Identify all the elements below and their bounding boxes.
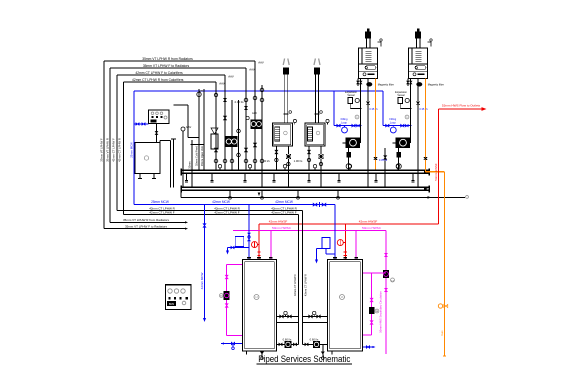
svg-text:35mm VT LPHW F to Radiators: 35mm VT LPHW F to Radiators (143, 64, 190, 68)
svg-text:35mm Open Vent: 35mm Open Vent (200, 146, 204, 166)
svg-text:50mm HWSC: 50mm HWSC (272, 226, 292, 230)
svg-text:AAV: AAV (228, 74, 234, 78)
svg-text:Loop: Loop (341, 120, 347, 124)
svg-text:42mm MCW: 42mm MCW (212, 200, 230, 204)
svg-text:0.35 l/s: 0.35 l/s (419, 107, 428, 111)
svg-text:25mm MCW: 25mm MCW (151, 200, 169, 204)
svg-text:42mm CT LPHW F: 42mm CT LPHW F (214, 211, 239, 215)
svg-text:35mm: 35mm (188, 161, 192, 168)
svg-text:42mm CT LPHW F to Calorifiers: 42mm CT LPHW F to Calorifiers (135, 71, 183, 75)
svg-text:AAV: AAV (252, 111, 257, 115)
svg-text:1.00 l/s: 1.00 l/s (294, 159, 303, 163)
svg-text:42mm CT LPHW F: 42mm CT LPHW F (293, 274, 297, 296)
svg-text:25mm MCW: 25mm MCW (130, 142, 134, 158)
svg-text:0.60 l/s: 0.60 l/s (283, 338, 292, 342)
svg-text:AAV: AAV (219, 81, 225, 85)
svg-text:42mm CT LPHW R from Calorifier: 42mm CT LPHW R from Calorifiers (132, 78, 184, 82)
svg-text:AAV: AAV (249, 67, 255, 71)
svg-text:Loop: Loop (390, 120, 396, 124)
svg-text:Vessel: Vessel (347, 94, 355, 97)
svg-text:35mm VT LPHW R from Radiators: 35mm VT LPHW R from Radiators (142, 57, 193, 61)
svg-text:0.35 l/s: 0.35 l/s (379, 158, 388, 162)
svg-text:1.00 l/s: 1.00 l/s (261, 159, 270, 163)
svg-text:50mm HWS Secondary Circulation: 50mm HWS Secondary Circulation (379, 291, 383, 333)
svg-text:Gas: Gas (440, 330, 444, 336)
svg-text:35mm VT LPHW R from Radiators: 35mm VT LPHW R from Radiators (123, 218, 169, 222)
svg-text:53mm HWSF: 53mm HWSF (434, 163, 438, 181)
svg-text:Vessel: Vessel (397, 94, 405, 97)
svg-text:35mm VT LPHW F to Radiators: 35mm VT LPHW F to Radiators (125, 224, 168, 228)
svg-text:42mm CT LPHW R: 42mm CT LPHW R (303, 274, 307, 296)
svg-text:42mm HWSF: 42mm HWSF (359, 219, 378, 223)
svg-text:50mm HWSC: 50mm HWSC (362, 226, 382, 230)
svg-text:Piped Services Schematic: Piped Services Schematic (258, 353, 350, 364)
svg-text:53mm HWS Flow to Outlets: 53mm HWS Flow to Outlets (442, 104, 481, 108)
svg-text:0.35 l/s: 0.35 l/s (369, 107, 378, 111)
svg-text:2.00 l/s: 2.00 l/s (234, 100, 244, 104)
svg-text:42mm HWSF: 42mm HWSF (269, 219, 288, 223)
svg-text:35mm VT LPHW F: 35mm VT LPHW F (100, 138, 104, 162)
svg-text:42mm CT LPHW R: 42mm CT LPHW R (118, 138, 122, 162)
svg-text:AAV: AAV (258, 60, 264, 64)
svg-text:0.60 l/s: 0.60 l/s (310, 338, 319, 342)
svg-text:42mm MCW: 42mm MCW (200, 273, 204, 290)
svg-text:Magnetic filter: Magnetic filter (428, 82, 444, 86)
svg-text:35mm VT LPHW R: 35mm VT LPHW R (106, 138, 110, 162)
svg-text:42mm MCW: 42mm MCW (275, 200, 293, 204)
svg-text:Magnetic filter: Magnetic filter (378, 82, 394, 86)
svg-text:42mm CT LPHW F: 42mm CT LPHW F (112, 138, 116, 162)
svg-text:42mm CT LPHW F: 42mm CT LPHW F (149, 211, 174, 215)
svg-text:AAV: AAV (186, 125, 192, 129)
svg-text:42mm CT LPHW F: 42mm CT LPHW F (271, 211, 296, 215)
svg-text:35mm Cold Feed: 35mm Cold Feed (194, 146, 198, 166)
svg-text:BMS: BMS (169, 303, 175, 306)
